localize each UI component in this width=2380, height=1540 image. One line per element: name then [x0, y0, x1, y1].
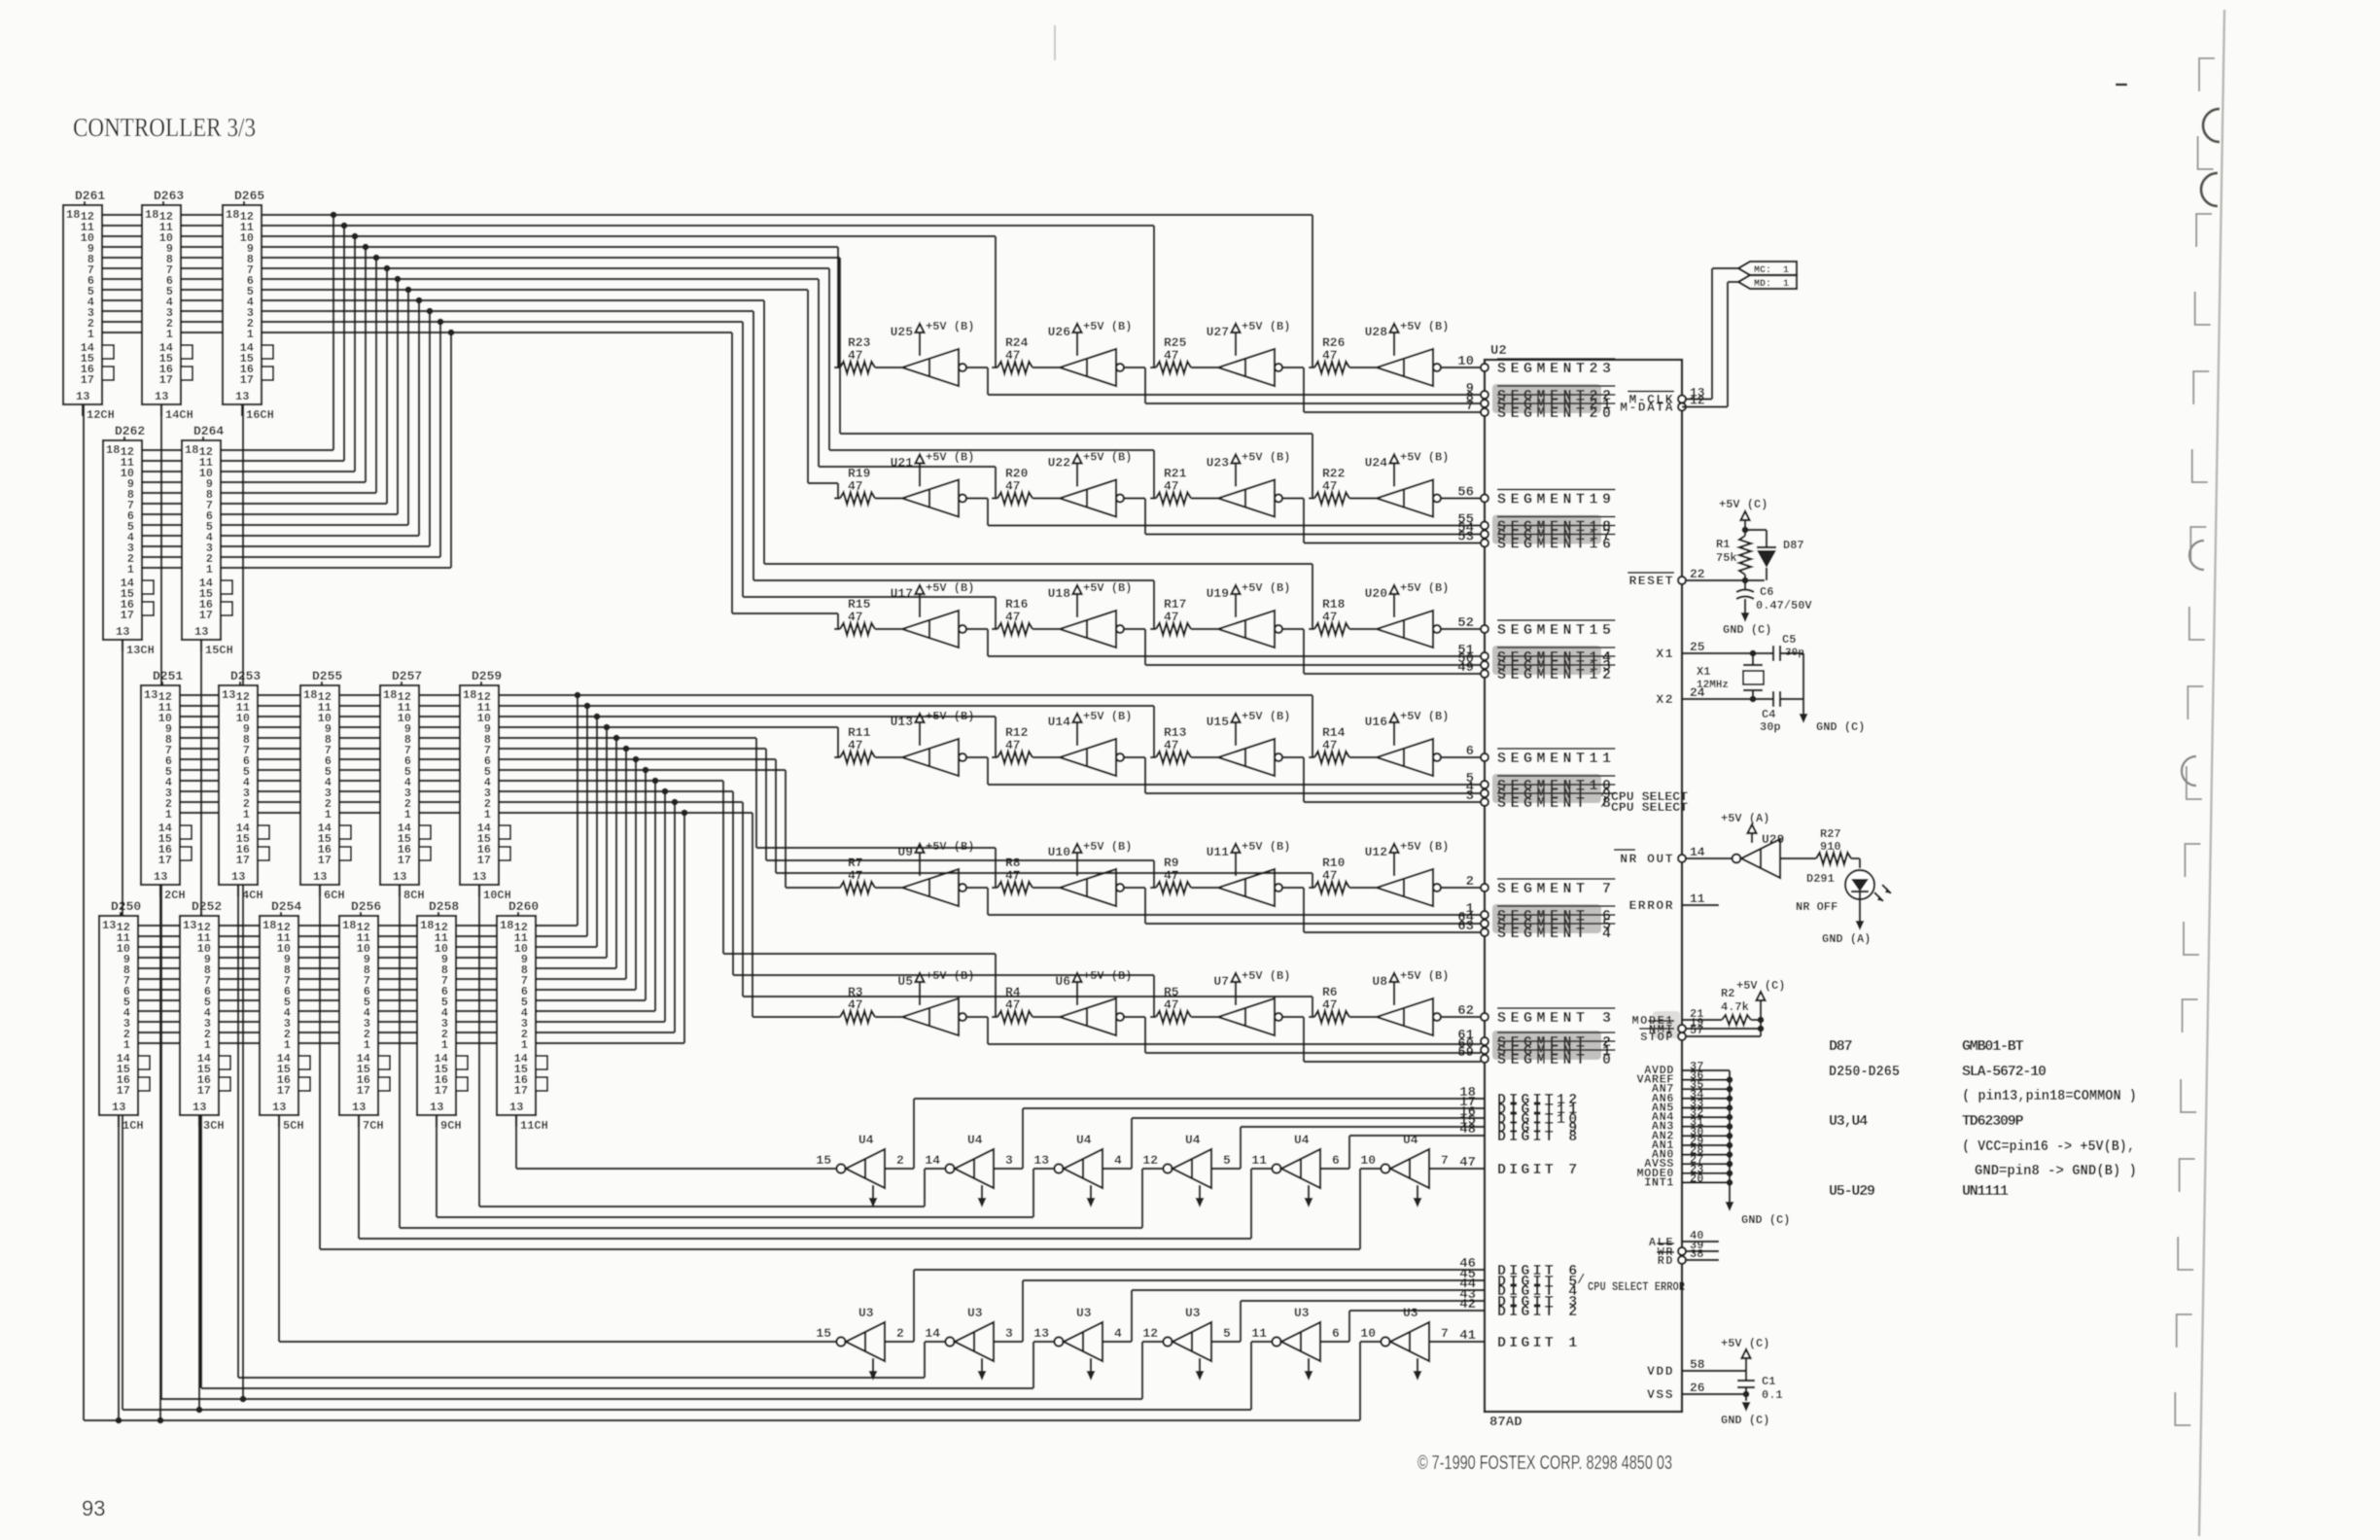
- svg-text:GND (C): GND (C): [1816, 720, 1865, 734]
- svg-text:47: 47: [1164, 610, 1179, 624]
- svg-text:1: 1: [441, 1038, 448, 1052]
- connector D260 (11CH) SLA-5672-10 display: [497, 899, 548, 1133]
- resistor R12 47: [992, 725, 1060, 763]
- svg-text:+5V (A): +5V (A): [1721, 812, 1769, 825]
- svg-text:13: 13: [1033, 1326, 1049, 1341]
- svg-text:U3,U4: U3,U4: [1829, 1113, 1868, 1130]
- svg-text:1: 1: [87, 328, 94, 341]
- svg-text:18: 18: [342, 919, 356, 932]
- connector D255 (6CH) SLA-5672-10 display: [300, 669, 351, 902]
- IC U2 ERROR pin: [1628, 892, 1719, 913]
- svg-text:U3: U3: [858, 1306, 874, 1320]
- svg-text:910: 910: [1820, 840, 1841, 854]
- ground emitter arrow U3 stage 3: [1087, 1358, 1096, 1381]
- svg-text:6CH: 6CH: [324, 889, 345, 902]
- svg-text:22: 22: [1690, 567, 1705, 581]
- ground emitter arrow U4 stage 5: [1305, 1185, 1313, 1207]
- svg-text:47: 47: [1322, 479, 1338, 494]
- svg-text:( pin13,pin18=COMMON ): ( pin13,pin18=COMMON ): [1962, 1088, 2137, 1104]
- resistor R6 47: [1309, 985, 1377, 1023]
- svg-text:13: 13: [272, 1101, 286, 1114]
- svg-text:U5-U29: U5-U29: [1829, 1183, 1875, 1200]
- resistor R20 47: [992, 467, 1060, 505]
- svg-text:( VCC=pin16 -> +5V(B),: ( VCC=pin16 -> +5V(B),: [1962, 1138, 2135, 1155]
- ground emitter arrow U3 stage 5: [1305, 1358, 1313, 1381]
- svg-text:D251: D251: [153, 669, 183, 683]
- svg-text:7: 7: [1441, 1326, 1449, 1341]
- +5V (B) supply for U28: [1365, 320, 1450, 356]
- svg-text:47: 47: [1005, 348, 1021, 363]
- ground GND (A) below D291: [1822, 899, 1871, 946]
- svg-text:U20: U20: [1365, 586, 1388, 601]
- svg-text:47: 47: [1164, 348, 1179, 363]
- svg-text:47: 47: [848, 348, 863, 363]
- svg-text:U23: U23: [1207, 456, 1230, 471]
- svg-text:U4: U4: [858, 1133, 874, 1147]
- transistor buffer U23: [1218, 480, 1282, 517]
- IC U2 ALE WR RD pins: [1649, 1229, 1719, 1268]
- resistor R27 910: [1780, 827, 1860, 864]
- svg-text:3: 3: [1005, 1326, 1013, 1341]
- transistor buffer U18: [1060, 611, 1124, 647]
- svg-text:87AD: 87AD: [1489, 1415, 1522, 1430]
- ground emitter arrow U3 stage 6: [1414, 1358, 1422, 1381]
- ground GND (C) below C4: [1800, 699, 1866, 734]
- svg-text:6: 6: [1332, 1153, 1340, 1168]
- transistor buffer U3 stage 1: [816, 1306, 904, 1361]
- ground emitter arrow U4 stage 6: [1414, 1185, 1422, 1207]
- svg-text:U26: U26: [1048, 325, 1071, 339]
- +5V (B) supply for U7: [1213, 969, 1290, 1005]
- +5V (B) supply for U19: [1207, 581, 1291, 617]
- svg-text:18: 18: [500, 919, 513, 932]
- resistor R13 47: [1150, 725, 1218, 763]
- wire RESET net: [1686, 577, 1765, 584]
- +5V (B) supply for U6: [1055, 969, 1132, 1005]
- svg-text:U27: U27: [1207, 325, 1229, 339]
- resistor R14 47: [1309, 725, 1377, 763]
- svg-text:59: 59: [1457, 1045, 1474, 1061]
- IC U2 X1 X2 pins: [1656, 640, 1704, 707]
- svg-text:12: 12: [1142, 1153, 1158, 1168]
- connector D262 (13CH) SLA-5672-10 display: [103, 424, 155, 657]
- svg-text:13: 13: [231, 870, 245, 884]
- wire U3 outputs to DIGIT bus: [885, 1270, 1485, 1342]
- svg-text:GND (C): GND (C): [1741, 1213, 1790, 1227]
- svg-text:D261: D261: [75, 189, 105, 203]
- +5V (B) supply for U22: [1048, 451, 1133, 487]
- resistor R19 47: [834, 467, 902, 505]
- svg-text:12: 12: [1690, 394, 1705, 408]
- resistor R15 47: [834, 597, 902, 635]
- svg-text:SEGMENT15: SEGMENT15: [1497, 622, 1616, 639]
- transistor buffer U29: [1732, 832, 1785, 878]
- svg-text:1: 1: [166, 328, 173, 341]
- +5V (B) supply for U18: [1048, 581, 1133, 617]
- svg-text:U12: U12: [1365, 845, 1388, 859]
- connector D257 (8CH) SLA-5672-10 display: [380, 669, 431, 902]
- svg-text:5: 5: [1223, 1326, 1231, 1341]
- svg-text:4: 4: [1114, 1153, 1122, 1168]
- svg-text:D252: D252: [192, 899, 222, 914]
- resistor R9 47: [1150, 856, 1218, 893]
- svg-text:U22: U22: [1048, 456, 1071, 471]
- svg-text:VDD: VDD: [1647, 1364, 1674, 1379]
- scan artifact dark crescents: [2182, 109, 2220, 786]
- svg-text:58: 58: [1690, 1357, 1705, 1372]
- IC U2 MODE1 NMI STOP pins: [1631, 1007, 1703, 1044]
- +5V (B) supply for U15: [1207, 710, 1291, 746]
- +5V (B) supply for U11: [1207, 840, 1291, 876]
- IC U2 VSS pin: [1647, 1381, 1749, 1402]
- svg-text:13: 13: [154, 870, 167, 884]
- svg-text:47: 47: [1322, 348, 1338, 363]
- connector D250 (1CH) SLA-5672-10 display: [99, 899, 150, 1133]
- wire rowA feed drops into buffer row 1: [838, 215, 1312, 367]
- svg-text:17: 17: [277, 1084, 291, 1098]
- svg-text:1: 1: [1783, 279, 1789, 290]
- svg-text:47: 47: [848, 997, 863, 1012]
- resistor R1 75k: [1716, 530, 1751, 580]
- ground emitter arrow U3 stage 4: [1196, 1358, 1205, 1381]
- svg-text:U4: U4: [1076, 1133, 1092, 1147]
- connector D256 (7CH) SLA-5672-10 display: [339, 899, 390, 1133]
- svg-text:NR OFF: NR OFF: [1796, 900, 1837, 914]
- +5V (B) supply for U17: [891, 581, 975, 617]
- svg-text:10: 10: [1457, 354, 1474, 369]
- wire NR OUT to U29: [1686, 857, 1732, 859]
- svg-text:+5V (B): +5V (B): [926, 451, 974, 465]
- svg-text:U21: U21: [891, 456, 914, 471]
- svg-text:D255: D255: [312, 669, 342, 683]
- svg-text:RD: RD: [1658, 1254, 1674, 1268]
- svg-text:47: 47: [1005, 479, 1021, 494]
- transistor buffer U27: [1218, 349, 1282, 386]
- svg-text:D87: D87: [1783, 539, 1804, 552]
- svg-text:U4: U4: [1294, 1133, 1310, 1147]
- svg-text:+5V (B): +5V (B): [1242, 710, 1290, 723]
- svg-text:+5V (B): +5V (B): [1242, 969, 1290, 983]
- wire rowC to row6 feed staircase: [723, 781, 1312, 1017]
- svg-text:0.47/50V: 0.47/50V: [1756, 599, 1812, 612]
- transistor buffer U16: [1377, 739, 1441, 776]
- wire rowA to row2 feed staircase: [808, 258, 1312, 499]
- svg-text:D258: D258: [429, 899, 459, 914]
- wire rowC feed drops into buffer row 4: [838, 695, 1312, 757]
- svg-text:11: 11: [1251, 1153, 1267, 1168]
- svg-text:18: 18: [66, 208, 80, 222]
- svg-text:U7: U7: [1213, 974, 1229, 989]
- svg-text:18: 18: [185, 443, 198, 457]
- transistor buffer U20: [1377, 611, 1441, 647]
- svg-text:1: 1: [165, 808, 172, 822]
- svg-text:U3: U3: [1076, 1306, 1092, 1320]
- svg-text:3: 3: [1005, 1153, 1013, 1168]
- connector D253 (4CH) SLA-5672-10 display: [219, 669, 269, 902]
- IC U2 RESET pin: [1627, 567, 1705, 588]
- svg-text:62: 62: [1457, 1003, 1474, 1019]
- svg-text:+5V (B): +5V (B): [1083, 581, 1132, 595]
- IC U2 NR OUT pin: [1614, 845, 1705, 866]
- transistor buffer U12: [1377, 869, 1441, 906]
- svg-text:11: 11: [1251, 1326, 1267, 1341]
- svg-text:U18: U18: [1048, 586, 1071, 601]
- svg-text:D87: D87: [1829, 1038, 1852, 1055]
- ground emitter arrow U3 stage 2: [978, 1358, 987, 1381]
- +5V (B) supply for U14: [1048, 710, 1133, 746]
- svg-text:15: 15: [816, 1326, 831, 1341]
- svg-text:17: 17: [81, 373, 94, 387]
- svg-text:U29: U29: [1762, 832, 1785, 847]
- connector D263 (14CH) SLA-5672-10 display: [142, 189, 193, 422]
- svg-text:8CH: 8CH: [403, 889, 425, 902]
- +5V (B) supply for U27: [1207, 320, 1291, 356]
- svg-text:1: 1: [127, 563, 134, 577]
- transistor buffer U5: [902, 998, 966, 1035]
- svg-text:1: 1: [123, 1038, 130, 1052]
- svg-text:GND=pin8 -> GND(B) ): GND=pin8 -> GND(B) ): [1975, 1163, 2137, 1179]
- ground emitter arrow U4 stage 4: [1196, 1185, 1205, 1207]
- svg-text:DIGIT 8: DIGIT 8: [1497, 1129, 1580, 1145]
- svg-text:U4: U4: [967, 1133, 983, 1147]
- ground emitter arrow U4 stage 3: [1087, 1185, 1096, 1207]
- svg-text:1: 1: [484, 808, 491, 822]
- crystal X1 12MHz: [1682, 650, 1773, 703]
- transistor buffer U7: [1218, 998, 1282, 1035]
- transistor buffer U6: [1060, 998, 1124, 1035]
- svg-text:SLA-5672-10: SLA-5672-10: [1962, 1064, 2047, 1080]
- svg-text:VSS: VSS: [1647, 1387, 1674, 1402]
- resistor R22 47: [1309, 467, 1377, 505]
- transistor buffer U9: [902, 869, 966, 906]
- resistor R2 4.7k: [1682, 987, 1761, 1025]
- ground emitter arrow U4 stage 2: [978, 1185, 987, 1207]
- svg-text:1CH: 1CH: [122, 1119, 144, 1133]
- svg-text:D259: D259: [472, 669, 502, 683]
- svg-text:D263: D263: [154, 189, 184, 203]
- svg-text:+5V (B): +5V (B): [1400, 969, 1449, 983]
- svg-text:18: 18: [226, 208, 239, 222]
- wire rowC segment bus lines: [180, 695, 1312, 813]
- wire outputs of segment row 6: [966, 1017, 1481, 1062]
- svg-text:U3: U3: [1403, 1306, 1418, 1320]
- wire U4 outputs to DIGIT bus: [885, 1099, 1485, 1169]
- resistor R18 47: [1309, 597, 1377, 635]
- connector D254 (5CH) SLA-5672-10 display: [260, 899, 310, 1133]
- svg-text:+5V (B): +5V (B): [926, 320, 974, 333]
- svg-text:U3: U3: [1294, 1306, 1310, 1320]
- svg-text:U24: U24: [1365, 456, 1388, 471]
- svg-text:13: 13: [430, 1101, 443, 1114]
- svg-text:DIGIT 2: DIGIT 2: [1497, 1304, 1580, 1320]
- svg-text:U2: U2: [1490, 343, 1507, 359]
- wire digit feed U4 row: [320, 885, 1381, 1249]
- svg-text:47: 47: [1005, 738, 1021, 752]
- capacitor C5 30p: [1773, 633, 1804, 699]
- svg-text:14: 14: [1690, 845, 1705, 859]
- +5V (B) supply for U24: [1365, 451, 1450, 487]
- resistor R25 47: [1150, 335, 1218, 373]
- wire rowB segment bus lines: [142, 450, 451, 568]
- svg-text:+5V (B): +5V (B): [1242, 581, 1290, 595]
- wire rowC to row5 feed staircase: [756, 738, 1312, 888]
- svg-text:NR OUT: NR OUT: [1620, 852, 1674, 866]
- svg-text:4.7k: 4.7k: [1721, 1000, 1749, 1014]
- capacitor C4 30p: [1760, 691, 1803, 734]
- svg-text:+5V (C): +5V (C): [1721, 1337, 1769, 1350]
- svg-text:3CH: 3CH: [203, 1119, 225, 1133]
- IC U2 left SEGMENT pins: [1457, 354, 1615, 1068]
- svg-text:47: 47: [848, 610, 863, 624]
- svg-text:18: 18: [420, 919, 434, 932]
- wire rowC-rowD bus staircase verticals: [575, 692, 688, 1043]
- svg-text:D253: D253: [230, 669, 261, 683]
- svg-text:C4: C4: [1762, 708, 1775, 721]
- transistor buffer U26: [1060, 349, 1124, 386]
- svg-text:D250: D250: [111, 899, 141, 914]
- svg-text:+5V (B): +5V (B): [1083, 451, 1132, 465]
- svg-text:13: 13: [235, 390, 249, 403]
- svg-text:47: 47: [1322, 997, 1338, 1012]
- svg-text:13: 13: [313, 870, 327, 884]
- svg-text:18: 18: [463, 688, 476, 702]
- LED D87: [1745, 530, 1804, 580]
- svg-text:13: 13: [155, 390, 168, 403]
- svg-text:+5V (B): +5V (B): [1083, 840, 1132, 854]
- svg-text:D260: D260: [508, 899, 539, 914]
- svg-text:47: 47: [1322, 868, 1338, 883]
- svg-text:+5V (B): +5V (B): [1242, 451, 1290, 465]
- svg-text:4: 4: [1114, 1326, 1122, 1341]
- +5V (B) supply for U5: [897, 969, 974, 1005]
- resistor R11 47: [834, 725, 902, 763]
- svg-text:GND (A): GND (A): [1822, 932, 1871, 946]
- scan artifact binder marks: [2175, 58, 2215, 1425]
- svg-text:D264: D264: [193, 424, 224, 438]
- svg-text:14CH: 14CH: [165, 408, 193, 422]
- svg-text:13CH: 13CH: [126, 644, 155, 657]
- svg-text:17: 17: [158, 854, 172, 867]
- svg-text:D257: D257: [392, 669, 422, 683]
- svg-text:RESET: RESET: [1628, 574, 1674, 588]
- svg-text:15CH: 15CH: [205, 644, 233, 657]
- svg-text:U5: U5: [897, 974, 913, 989]
- svg-text:17: 17: [117, 1084, 130, 1098]
- svg-text:+5V (B): +5V (B): [1400, 710, 1449, 723]
- svg-text:6: 6: [1332, 1326, 1340, 1341]
- transistor buffer U4 stage 6: [1360, 1133, 1448, 1188]
- svg-text:CPU SELECT: CPU SELECT: [1611, 800, 1688, 815]
- svg-text:MD:: MD:: [1754, 279, 1771, 290]
- +5V (B) supply for U26: [1048, 320, 1133, 356]
- svg-text:17: 17: [159, 373, 173, 387]
- transistor buffer U3 stage 4: [1142, 1306, 1231, 1361]
- svg-text:9CH: 9CH: [440, 1119, 462, 1133]
- svg-text:17: 17: [236, 854, 250, 867]
- svg-text:C5: C5: [1782, 633, 1796, 647]
- +5V (A) supply for U29: [1721, 812, 1769, 843]
- transistor buffer U15: [1218, 739, 1282, 776]
- svg-text:13: 13: [112, 1101, 125, 1114]
- svg-text:47: 47: [1164, 479, 1179, 494]
- svg-text:17: 17: [318, 854, 332, 867]
- svg-text:47: 47: [1322, 738, 1338, 752]
- svg-text:2: 2: [896, 1326, 904, 1341]
- svg-text:DIGIT 1: DIGIT 1: [1497, 1335, 1580, 1351]
- svg-text:+5V (B): +5V (B): [1400, 320, 1449, 333]
- +5V (C) supply for reset: [1719, 498, 1767, 533]
- transistor buffer U10: [1060, 869, 1124, 906]
- transistor buffer U11: [1218, 869, 1282, 906]
- svg-text:47: 47: [1459, 1155, 1476, 1171]
- svg-text:DIGIT 7: DIGIT 7: [1497, 1162, 1580, 1178]
- svg-text:47: 47: [848, 479, 863, 494]
- wire outputs of segment row 4: [966, 757, 1481, 802]
- connector MD flag: [1738, 275, 1797, 290]
- svg-text:+5V (B): +5V (B): [1400, 581, 1449, 595]
- svg-text:2: 2: [896, 1153, 904, 1168]
- transistor buffer U19: [1218, 611, 1282, 647]
- svg-text:6: 6: [1466, 744, 1474, 759]
- +5V (B) supply for U10: [1048, 840, 1133, 876]
- svg-text:7: 7: [1466, 399, 1474, 414]
- connector D264 (15CH) SLA-5672-10 display: [182, 424, 233, 657]
- LED D291 NR OFF indicator: [1796, 858, 1891, 914]
- svg-text:10CH: 10CH: [483, 889, 511, 902]
- transistor buffer U4 stage 3: [1033, 1133, 1122, 1188]
- transistor buffer U13: [902, 739, 966, 776]
- svg-text:5CH: 5CH: [283, 1119, 304, 1133]
- svg-text:/: /: [1600, 796, 1608, 812]
- resistor R23 47: [834, 335, 902, 373]
- wire rowA to row3 feed staircase: [732, 300, 1312, 629]
- svg-text:1: 1: [204, 1038, 211, 1052]
- svg-text:U17: U17: [891, 586, 913, 601]
- connector D252 (3CH) SLA-5672-10 display: [180, 899, 230, 1133]
- svg-text:13: 13: [102, 919, 116, 932]
- svg-text:17: 17: [435, 1084, 448, 1098]
- svg-text:D291: D291: [1806, 872, 1835, 886]
- svg-text:U16: U16: [1365, 715, 1388, 729]
- svg-text:63: 63: [1457, 919, 1474, 934]
- transistor buffer U3 stage 5: [1251, 1306, 1340, 1361]
- svg-text:SEGMENT19: SEGMENT19: [1497, 492, 1616, 508]
- svg-text:17: 17: [514, 1084, 528, 1098]
- svg-text:+5V (B): +5V (B): [1242, 840, 1290, 854]
- transistor buffer U4 stage 4: [1142, 1133, 1231, 1188]
- transistor buffer U3 stage 2: [925, 1306, 1013, 1361]
- svg-text:48: 48: [1459, 1122, 1476, 1137]
- +5V (B) supply for U12: [1365, 840, 1450, 876]
- svg-text:SEGMENT11: SEGMENT11: [1497, 751, 1616, 767]
- svg-text:+5V (C): +5V (C): [1736, 979, 1785, 993]
- wire rowA-rowB bus staircase verticals: [331, 212, 455, 568]
- +5V (C) pullup supply: [1736, 979, 1785, 1000]
- svg-text:D265: D265: [234, 189, 264, 203]
- svg-text:R2: R2: [1721, 987, 1734, 1000]
- wire to MC MD connector: [1682, 268, 1738, 407]
- +5V (B) supply for U21: [891, 451, 975, 487]
- +5V (B) supply for U16: [1365, 710, 1450, 746]
- ground GND (C) for analog pins: [1726, 1070, 1791, 1227]
- svg-text:D256: D256: [351, 899, 381, 914]
- svg-text:47: 47: [1322, 610, 1338, 624]
- svg-text:CONTROLLER 3/3: CONTROLLER 3/3: [73, 113, 256, 142]
- svg-text:U10: U10: [1048, 845, 1071, 859]
- svg-text:+5V (B): +5V (B): [1400, 840, 1449, 854]
- svg-text:3: 3: [1466, 788, 1474, 804]
- wire rowA segment bus lines: [102, 215, 1312, 332]
